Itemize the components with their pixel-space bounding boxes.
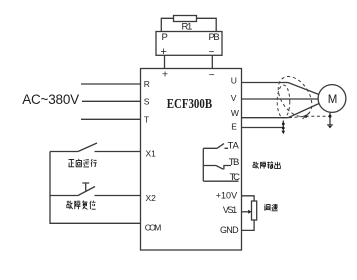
- motor ground wire: [327, 113, 333, 125]
- svg-text:COM: COM: [145, 222, 162, 232]
- wire U to motor: [242, 83, 320, 95]
- label fault-reset (Chinese): [67, 201, 96, 210]
- svg-text:R1: R1: [182, 21, 193, 32]
- relay rail: [202, 148, 204, 181]
- svg-text:W: W: [231, 108, 239, 118]
- svg-text:R: R: [144, 79, 150, 89]
- wire V to motor: [242, 98, 319, 100]
- cable shield outer ellipse: [271, 70, 318, 122]
- svg-text:−: −: [209, 47, 215, 58]
- shield drain ground arrow: [282, 131, 286, 134]
- svg-text:AC~380V: AC~380V: [22, 92, 79, 107]
- svg-text:U: U: [231, 76, 237, 86]
- label forward-run (Chinese): [69, 159, 97, 167]
- svg-text:GND: GND: [220, 225, 239, 235]
- motor ground junction dot: [329, 115, 332, 118]
- svg-text:TA: TA: [228, 141, 240, 152]
- svg-text:+10V: +10V: [216, 191, 237, 201]
- svg-text:X2: X2: [146, 193, 157, 203]
- wire - to inverter: [211, 55, 213, 68]
- svg-text:+: +: [160, 46, 166, 58]
- pushbutton fault-reset to X2: [50, 187, 141, 196]
- VS1 wiper arrowhead: [248, 210, 251, 214]
- relay contact TC: [203, 180, 238, 182]
- motor ground arrow: [328, 126, 332, 129]
- wire S phase: [82, 100, 141, 102]
- shield drain dot 1: [282, 123, 285, 126]
- svg-text:VS1: VS1: [223, 205, 237, 215]
- svg-text:M: M: [328, 94, 338, 106]
- svg-text:T: T: [144, 114, 149, 124]
- svg-text:ECF300B: ECF300B: [167, 96, 212, 111]
- svg-text:P: P: [162, 32, 168, 43]
- label fault-output (Chinese): [253, 162, 280, 169]
- svg-text:TC: TC: [230, 172, 241, 183]
- svg-text:S: S: [144, 96, 150, 106]
- svg-text:E: E: [231, 122, 237, 132]
- wire T phase: [81, 118, 141, 120]
- svg-text:X1: X1: [146, 149, 157, 159]
- wire R1 left to P: [161, 18, 173, 31]
- wire R phase: [81, 83, 141, 85]
- motor M circle: [318, 85, 346, 113]
- svg-text:V: V: [231, 93, 237, 103]
- shield drain wire: [282, 121, 284, 132]
- label speed-adjust (Chinese): [264, 204, 277, 211]
- svg-text:TB: TB: [229, 157, 240, 168]
- shield link tick: [303, 113, 310, 120]
- inverter ECF300B box: [141, 69, 242, 251]
- svg-text:PB: PB: [209, 32, 220, 43]
- wire left rail to COM: [50, 152, 141, 224]
- svg-text:+: +: [162, 69, 168, 81]
- shield drain junction dot on E: [282, 127, 285, 130]
- svg-text:−: −: [209, 70, 215, 81]
- pushbutton T actuator: [82, 183, 89, 191]
- relay contact TB: [203, 166, 231, 170]
- wire E: [242, 127, 284, 129]
- potentiometer VS1 body: [252, 201, 257, 220]
- cable shield inner ellipse: [277, 85, 290, 118]
- wire VS1 wiper: [242, 211, 249, 213]
- wire R1 right to PB: [197, 18, 217, 31]
- wire + to inverter: [164, 55, 166, 68]
- wire W to motor: [242, 104, 320, 118]
- switch forward-run to X1: [50, 143, 141, 152]
- dashed shield-to-motor-ground link: [289, 116, 329, 118]
- relay contact TA: [203, 144, 228, 149]
- wire +10V to pot: [242, 196, 255, 201]
- resistor R1: [174, 16, 197, 22]
- wire GND to pot: [242, 220, 255, 230]
- braking unit box P/PB: [156, 32, 222, 56]
- shield link junction dot: [305, 115, 308, 118]
